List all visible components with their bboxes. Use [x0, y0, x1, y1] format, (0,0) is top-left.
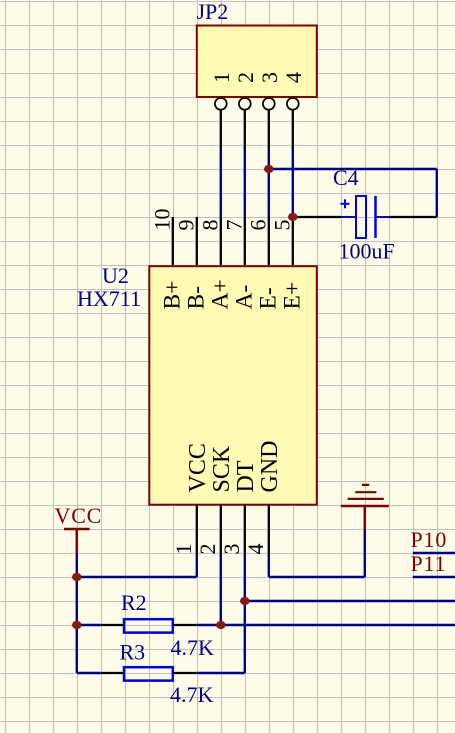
svg-text:SCK: SCK [209, 445, 235, 492]
svg-text:E+: E+ [279, 282, 305, 310]
JP2 pin 3 [257, 72, 282, 149]
svg-text:2: 2 [195, 544, 220, 555]
svg-text:R2: R2 [121, 590, 147, 615]
U2 pin 7 A- [221, 217, 257, 310]
svg-text:HX711: HX711 [77, 286, 141, 311]
svg-text:100uF: 100uF [339, 239, 395, 264]
svg-text:4: 4 [243, 544, 268, 555]
junction DT node [240, 597, 250, 605]
U2 pin 8 A+ [197, 217, 233, 310]
junction SCK node [216, 621, 226, 629]
JP2 pin 2 [233, 72, 258, 149]
svg-text:U2: U2 [102, 263, 129, 288]
svg-text:R3: R3 [120, 640, 146, 665]
wire DT to right edge [245, 600, 455, 602]
wire C4 right vertical [436, 169, 438, 217]
label JP2 [197, 0, 229, 24]
U2 pin 9 B- [173, 217, 209, 310]
resistor R3 [101, 667, 197, 680]
power symbol VCC [55, 503, 103, 553]
IC U2 body [149, 266, 316, 505]
label C4 [333, 165, 359, 190]
label R3 [120, 640, 146, 665]
svg-text:P10: P10 [411, 527, 448, 552]
U2 pin 2 SCK [195, 445, 235, 555]
U2 pin 3 DT [219, 460, 259, 555]
svg-text:4.7K: 4.7K [170, 682, 214, 707]
wire R2 left [77, 624, 101, 626]
svg-text:3: 3 [219, 544, 244, 555]
label R2 value 4.7K [171, 635, 215, 660]
U2 pin 4 GND [243, 441, 283, 556]
junction node E- [264, 165, 274, 173]
svg-text:4.7K: 4.7K [171, 635, 215, 660]
wire ground to GND net [269, 530, 365, 577]
net label P10 [411, 527, 448, 552]
svg-text:P11: P11 [411, 551, 447, 576]
resistor R2 [101, 619, 197, 632]
wire JP2.2 to U2.7 [244, 149, 246, 217]
svg-text:3: 3 [257, 72, 282, 83]
wire R2 right to SCK node and right edge [197, 624, 455, 626]
svg-text:DT: DT [233, 460, 259, 492]
label R2 [121, 590, 147, 615]
wire JP2.1 to U2.8 [220, 149, 222, 217]
svg-text:A+: A+ [207, 279, 233, 309]
U2 pin 5 E+ [269, 217, 305, 310]
label U2 [102, 263, 129, 288]
svg-text:10: 10 [149, 209, 174, 231]
wire VCC rail down [76, 577, 78, 673]
wire U2.3 DT down [244, 556, 246, 674]
svg-text:7: 7 [221, 220, 246, 231]
connector JP2 body [197, 26, 317, 98]
label 100uF [339, 239, 395, 264]
wire R3 left [77, 672, 101, 674]
junction R2 left node [72, 621, 82, 629]
U2 pin 6 E- [245, 217, 281, 310]
svg-text:B-: B- [183, 286, 209, 310]
svg-text:B+: B+ [159, 281, 185, 310]
svg-text:6: 6 [245, 220, 270, 231]
svg-text:E-: E- [255, 287, 281, 309]
net label P11 [411, 551, 447, 576]
wire JP2.3 to U2.6 [268, 149, 270, 217]
wire P11 [413, 576, 455, 578]
junction VCC node [72, 573, 82, 581]
svg-text:A-: A- [231, 285, 257, 310]
U2 pin 10 B+ [149, 209, 185, 310]
svg-text:1: 1 [209, 72, 234, 83]
label R3 value 4.7K [170, 682, 214, 707]
capacitor C4 [293, 196, 437, 238]
JP2 pin 1 [209, 72, 234, 149]
wire P10 [413, 552, 455, 554]
U2 pin 1 VCC [171, 443, 211, 555]
svg-text:GND: GND [257, 441, 283, 493]
svg-text:9: 9 [173, 220, 198, 231]
wire VCC to U2.1 [77, 553, 197, 577]
svg-text:5: 5 [269, 220, 294, 231]
svg-text:1: 1 [171, 544, 196, 555]
svg-text:4: 4 [281, 72, 306, 83]
svg-text:JP2: JP2 [197, 0, 229, 24]
wire E- node to C4 top [269, 168, 437, 170]
label HX711 [77, 286, 141, 311]
svg-text:C4: C4 [333, 165, 359, 190]
svg-text:2: 2 [233, 72, 258, 83]
svg-text:VCC: VCC [185, 443, 211, 492]
svg-text:8: 8 [197, 220, 222, 231]
wire U2.2 SCK down [220, 556, 222, 626]
svg-text:VCC: VCC [55, 503, 103, 528]
JP2 pin 4 [281, 72, 306, 149]
ground symbol [341, 485, 389, 530]
wire R3 right to DT [197, 672, 245, 674]
junction node E+ [288, 213, 298, 221]
wire JP2.4 to U2.5 [292, 149, 294, 217]
